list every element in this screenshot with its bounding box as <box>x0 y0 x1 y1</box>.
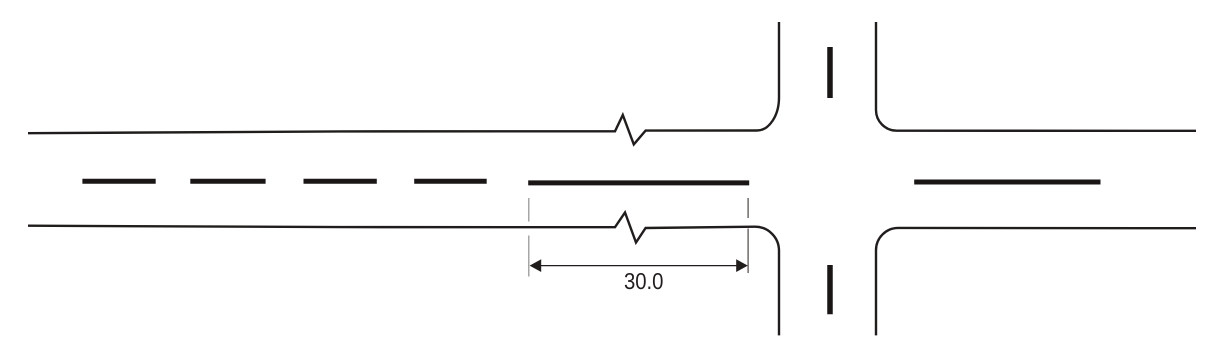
svg-text:30.0: 30.0 <box>624 268 664 294</box>
